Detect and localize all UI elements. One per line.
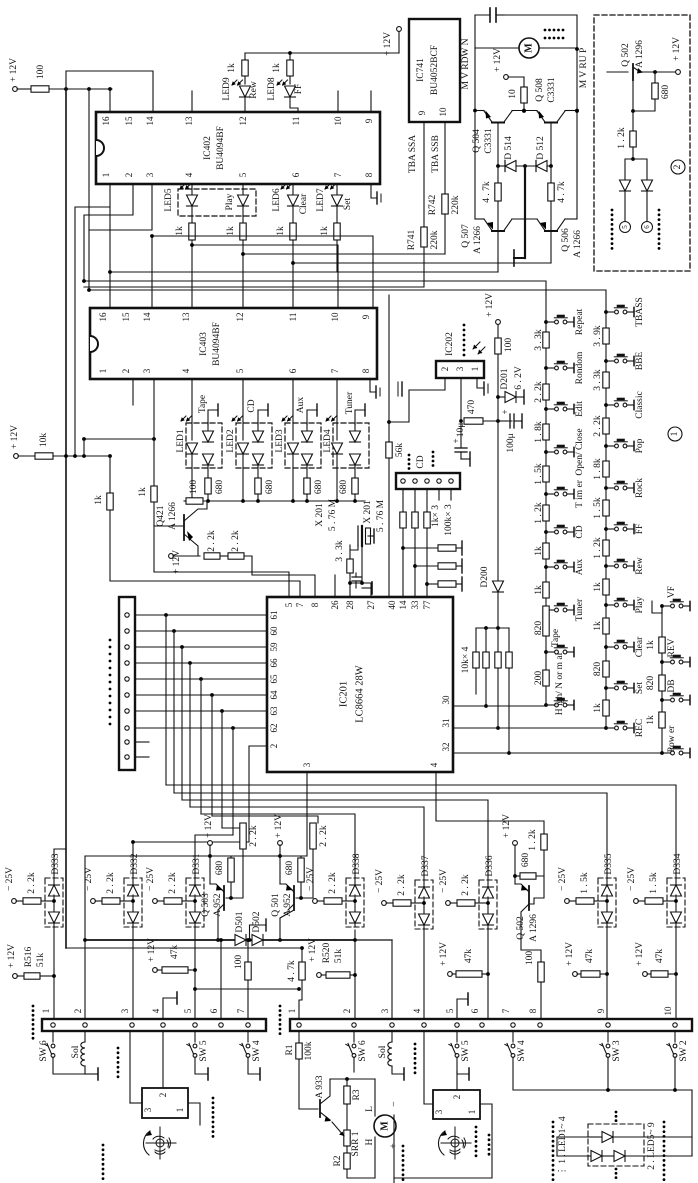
resistor 4.7k (right) xyxy=(550,166,552,183)
svg-text:+ 12V: + 12V xyxy=(7,944,17,968)
CN2 pin5 flag xyxy=(457,999,468,1019)
svg-text:REC: REC xyxy=(635,719,645,737)
driver diode pair D332 xyxy=(124,878,142,927)
pushbutton Repeat xyxy=(544,320,548,324)
svg-text:1 . 2k: 1 . 2k xyxy=(617,127,627,149)
pushbutton Rew xyxy=(604,564,608,568)
terminal +12V with 10k (IC403 supply) xyxy=(14,454,19,459)
circled pin 5 (group 2) xyxy=(620,222,631,233)
switch SW4 (CN1) xyxy=(247,1031,249,1042)
svg-text:12: 12 xyxy=(238,117,248,126)
pushbutton Open/Close xyxy=(544,450,548,454)
fan wire to D336 xyxy=(182,800,488,880)
svg-text:+ 12V: + 12V xyxy=(308,938,318,962)
wire branch to bus x75 xyxy=(75,207,110,456)
terminal -25V for driver at x=355 xyxy=(313,899,318,904)
LED9 Rew indicator xyxy=(244,53,246,84)
pushbutton FF xyxy=(604,527,608,531)
svg-text:1k: 1k xyxy=(227,63,237,73)
svg-text:1k: 1k xyxy=(593,582,603,592)
terminal +12V with 47k (D334) xyxy=(643,972,648,977)
pushbutton Pop xyxy=(604,444,608,448)
IC403 body xyxy=(90,308,377,379)
svg-text:IC402: IC402 xyxy=(203,136,213,160)
svg-text:M V RDW N: M V RDW N xyxy=(461,38,471,89)
svg-text:9: 9 xyxy=(361,314,371,319)
IC201 pin4 wire to Q502 xyxy=(436,772,544,834)
svg-text:680: 680 xyxy=(285,861,295,876)
svg-text:200: 200 xyxy=(534,671,544,686)
svg-text:680: 680 xyxy=(215,480,225,495)
mode box (CN2 mechanism) xyxy=(456,1071,458,1090)
resistor 4.7k (motor speed line) xyxy=(301,948,303,962)
svg-text:+ 12V: + 12V xyxy=(9,58,19,82)
load capacitor near X201 xyxy=(352,576,361,578)
svg-text:66: 66 xyxy=(269,658,279,668)
legend diode top xyxy=(588,1136,602,1138)
svg-text:27: 27 xyxy=(366,600,376,610)
svg-text:Play: Play xyxy=(225,193,235,210)
fan wire to D334 xyxy=(166,785,676,878)
svg-text:D201: D201 xyxy=(500,368,510,389)
svg-text:LED3: LED3 xyxy=(275,429,285,452)
svg-text:65: 65 xyxy=(269,674,279,684)
IC201 pin32 key return rail xyxy=(453,752,662,754)
svg-text:10: 10 xyxy=(333,116,343,126)
pushbutton Rock xyxy=(604,486,608,490)
transistor Q 503 A952 driver xyxy=(208,841,213,846)
key chain C top link xyxy=(652,601,662,613)
svg-text:6: 6 xyxy=(291,172,301,177)
pushbutton Play xyxy=(604,603,608,607)
connector CN1 (7-pin) xyxy=(42,1019,266,1031)
svg-text:47k: 47k xyxy=(585,949,595,964)
wire IC403 pin3 branch xyxy=(84,379,154,439)
fan wire to D332 xyxy=(133,842,249,878)
resistor 56k on IC201 pin40 line xyxy=(388,295,390,442)
resistor 1.2k (Q502 base feed) xyxy=(541,834,547,850)
svg-text:5: 5 xyxy=(284,602,294,607)
driver diode pair D333 xyxy=(45,878,63,927)
svg-text:47k: 47k xyxy=(170,945,180,960)
wire IC403 pin3 with 1k to IC201 pin5 xyxy=(153,439,155,486)
IC402 pin8 ground xyxy=(371,184,377,198)
resistor array 10k x 4 pull network xyxy=(476,627,509,629)
svg-text:12: 12 xyxy=(235,313,245,322)
svg-text:2: 2 xyxy=(673,164,683,169)
svg-text:1k: 1k xyxy=(534,546,544,556)
IC201 pin3 wire to CN1 pin2 xyxy=(85,772,307,1019)
svg-text:8: 8 xyxy=(310,602,320,607)
capacitor near IC403 pin9 xyxy=(397,382,399,396)
svg-text:A 1266: A 1266 xyxy=(573,230,583,258)
svg-text:5: 5 xyxy=(235,368,245,373)
svg-text:Sol: Sol xyxy=(71,1045,81,1058)
svg-text:D 514: D 514 xyxy=(504,136,514,160)
svg-text:LED1: LED1 xyxy=(176,429,186,452)
svg-text:7: 7 xyxy=(501,1008,511,1013)
svg-text:6: 6 xyxy=(470,1008,480,1013)
svg-text:1k: 1k xyxy=(226,226,236,236)
resistor R3 xyxy=(346,1079,348,1086)
svg-text:14: 14 xyxy=(142,312,152,322)
svg-text:+ 12V: + 12V xyxy=(502,814,512,838)
svg-text:Tuner: Tuner xyxy=(575,598,585,621)
resistor 4.7k (left) xyxy=(497,166,499,183)
svg-text:33: 33 xyxy=(410,600,420,610)
svg-text:1k: 1k xyxy=(276,226,286,236)
switch SW5 (CN1) xyxy=(194,1031,196,1042)
svg-text:D200: D200 xyxy=(480,566,490,587)
terminal -25V for driver at x=133 xyxy=(91,899,96,904)
TBASSA wire from IC741 pin9 xyxy=(423,122,425,227)
svg-text:3: 3 xyxy=(302,762,312,767)
switch SW5 (CN2) xyxy=(456,1031,458,1042)
IC402 pin 9 stub xyxy=(370,91,372,112)
svg-text:2 . 2k: 2 . 2k xyxy=(328,872,338,894)
motor drive bottom rail xyxy=(475,218,484,220)
svg-text:SW 6: SW 6 xyxy=(358,1040,368,1061)
wire band y263 (LED6 to Q506 collector) xyxy=(293,262,551,264)
resistor 680 (group 2) xyxy=(653,70,657,74)
svg-text:100k: 100k xyxy=(304,1041,314,1060)
svg-text:Pop: Pop xyxy=(635,438,645,453)
svg-text:1: 1 xyxy=(670,431,680,436)
svg-text:8: 8 xyxy=(361,368,371,373)
svg-text:IC403: IC403 xyxy=(199,332,209,356)
svg-text:3: 3 xyxy=(455,366,465,371)
resistor 1.2k (group 2) xyxy=(632,111,634,131)
svg-text:VF: VF xyxy=(667,586,677,598)
svg-text:Rock: Rock xyxy=(635,478,645,498)
motor drive upper rail xyxy=(475,110,484,112)
pushbutton Clear xyxy=(604,645,608,649)
svg-text:LED5: LED5 xyxy=(164,188,174,211)
svg-text:62: 62 xyxy=(269,724,279,733)
resistor 100 (CN2 pin8) xyxy=(538,962,544,982)
svg-text:Q421: Q421 xyxy=(156,505,166,526)
svg-text:1 . 5k: 1 . 5k xyxy=(580,872,590,894)
key scan connector (5-pin) xyxy=(396,473,460,489)
IC403 pin8 ground and cap xyxy=(370,379,376,392)
circled group number 2 xyxy=(671,160,685,174)
svg-text:−: − xyxy=(389,1101,400,1107)
circled key group number 1 xyxy=(668,427,682,441)
terminal +12V (remote supply) xyxy=(496,320,501,325)
svg-text:10k: 10k xyxy=(39,433,49,448)
terminal -25V for driver at x=607 xyxy=(565,899,570,904)
variable resistor SRR1 with wiper arrow xyxy=(344,1130,350,1146)
wire +12V rail loop to IC402 pin 14 xyxy=(66,71,153,112)
svg-text:8: 8 xyxy=(364,172,374,177)
resistor 1.2k chain A xyxy=(543,505,549,521)
svg-text:9: 9 xyxy=(596,1008,606,1013)
pushbutton High/Normal xyxy=(544,703,548,707)
motor drive frame right rail xyxy=(576,15,578,219)
pushbutton DB xyxy=(660,698,664,702)
display connector pin9 pin10 stubs xyxy=(135,741,149,743)
goalpost mark above D502 xyxy=(250,925,267,940)
svg-text:680: 680 xyxy=(215,861,225,876)
terminal -25V for driver at x=424 xyxy=(382,901,387,906)
svg-text:D338: D338 xyxy=(352,853,362,874)
svg-text:D336: D336 xyxy=(485,855,495,876)
zener D201 6.2V xyxy=(498,396,505,398)
IC403 pin11 wire from band xyxy=(292,263,294,308)
svg-text:Tape: Tape xyxy=(198,395,208,413)
ground flag (motor drive) xyxy=(514,257,525,259)
LED8 FF indicator xyxy=(289,53,291,84)
svg-text:2 . 2k: 2 . 2k xyxy=(106,872,116,894)
svg-text:3 . 3k: 3 . 3k xyxy=(335,540,345,562)
svg-text:− 25V: − 25V xyxy=(627,867,637,891)
svg-text:Q 502: Q 502 xyxy=(621,43,631,67)
pushbutton Tape xyxy=(544,650,548,654)
svg-text:2 . 2k: 2 . 2k xyxy=(319,825,329,847)
terminal -25V for driver at x=54 xyxy=(12,899,17,904)
svg-text:30: 30 xyxy=(441,695,451,705)
svg-text:6 . 2V: 6 . 2V xyxy=(514,366,524,390)
svg-text:Edit: Edit xyxy=(575,401,585,417)
motor drive top rail with capacitor xyxy=(475,14,490,16)
svg-text:2 . 2k: 2 . 2k xyxy=(534,381,544,403)
svg-text:C3331: C3331 xyxy=(547,77,557,103)
svg-text:1 . 5k: 1 . 5k xyxy=(534,463,544,485)
svg-text:2 . 2k: 2 . 2k xyxy=(231,530,241,552)
svg-text:5: 5 xyxy=(621,225,629,229)
svg-text:1k: 1k xyxy=(138,487,148,497)
pushbutton CD xyxy=(544,530,548,534)
svg-text:77: 77 xyxy=(422,600,432,610)
resistor 2.2k (Q421) #2 xyxy=(228,553,244,559)
resistor 820 chain C xyxy=(659,675,665,691)
resistor 820 chain B xyxy=(603,661,609,677)
wire motor right line xyxy=(393,1115,395,1183)
motor drive frame left rail xyxy=(474,15,476,219)
svg-text:+ 12V: + 12V xyxy=(493,48,503,72)
svg-text:T im er: T im er xyxy=(575,479,585,508)
svg-text:BU4052BCF: BU4052BCF xyxy=(430,45,440,95)
svg-text:SW 2: SW 2 xyxy=(679,1040,689,1061)
svg-text:D332: D332 xyxy=(130,853,140,874)
fan wire to Q501 input xyxy=(212,816,318,823)
dotted columns (group 2) xyxy=(611,209,614,212)
resistor 1k under Play LED xyxy=(240,223,246,240)
svg-text:C3331: C3331 xyxy=(484,128,494,154)
svg-text:+ 12V: + 12V xyxy=(172,550,182,574)
resistor 10k xyxy=(35,453,53,459)
power terminal +12V (IC402 supply) xyxy=(13,87,18,92)
svg-text:51k: 51k xyxy=(36,953,46,968)
svg-text:TBA SSA: TBA SSA xyxy=(408,135,418,173)
pushbutton Timer xyxy=(544,492,548,496)
CN1 pin4 flag xyxy=(163,998,177,1019)
svg-text:4 . 7k: 4 . 7k xyxy=(557,181,567,203)
svg-text:3: 3 xyxy=(434,1109,444,1114)
svg-text:100k× 3: 100k× 3 xyxy=(444,504,454,536)
svg-text:R520: R520 xyxy=(322,942,332,963)
svg-text:Pow er: Pow er xyxy=(667,725,677,752)
svg-text:SRR 1: SRR 1 xyxy=(351,1131,361,1156)
svg-text:2 . 2k: 2 . 2k xyxy=(207,530,217,552)
svg-text:Clear: Clear xyxy=(635,636,645,657)
legend dots above below box xyxy=(615,1111,618,1114)
svg-text:Tuner: Tuner xyxy=(345,391,355,414)
resistor 1k chain A (1) xyxy=(543,543,549,559)
svg-text:SW 4: SW 4 xyxy=(517,1040,527,1061)
svg-text:+ 12V: + 12V xyxy=(672,37,682,61)
svg-text:31: 31 xyxy=(441,719,451,728)
key chain C wire xyxy=(661,606,663,753)
svg-text:2 . 2k: 2 . 2k xyxy=(168,872,178,894)
svg-text:+ 12V: + 12V xyxy=(485,293,495,317)
svg-text:+: + xyxy=(451,438,461,443)
wire +12V bus for LED8 LED9 xyxy=(245,52,399,54)
svg-text:680: 680 xyxy=(339,480,349,495)
LED3 Aux indicator group xyxy=(285,423,321,468)
svg-text:LED6: LED6 xyxy=(272,188,282,211)
resistor R1 100k (CN2 pin1) xyxy=(298,1031,300,1043)
dotted separator CN1 xyxy=(117,1047,120,1050)
svg-text:+ 12V: + 12V xyxy=(147,938,157,962)
fan wire to D331 xyxy=(195,835,233,878)
switch SW6 (CN2) xyxy=(353,1031,355,1042)
resistor 470 xyxy=(464,418,483,424)
svg-text:IC741: IC741 xyxy=(416,58,426,82)
svg-text:SW 4: SW 4 xyxy=(252,1040,262,1061)
svg-text:− 25V: − 25V xyxy=(558,867,568,891)
IC202 pin1 ground xyxy=(477,378,484,388)
wire Q501 collector to thick rail xyxy=(280,910,294,940)
svg-text:28: 28 xyxy=(345,600,355,610)
driver diode pair D337 xyxy=(415,880,433,929)
wire vertical bus x67 (from +12V rail down left side) xyxy=(65,89,67,948)
svg-text:1k: 1k xyxy=(593,703,603,713)
resistor 680 (LED1) xyxy=(205,478,211,494)
terminal +12V (Q421 emitter) xyxy=(169,554,174,559)
svg-text:− 25V: − 25V xyxy=(375,869,385,893)
wire band y254 (Play LED to TBASSB) xyxy=(243,253,445,255)
transistor Q502 A1296 (lamp driver) xyxy=(513,841,518,846)
resistor 680 (LED4) xyxy=(352,478,358,494)
svg-text:2: 2 xyxy=(269,744,279,749)
solenoid Sol (CN2) xyxy=(388,1042,392,1066)
svg-text:1k: 1k xyxy=(94,495,104,505)
svg-text:DB: DB xyxy=(667,679,677,692)
svg-text:− 25V: − 25V xyxy=(306,867,316,891)
resistor 2.2k (Q421) #1 xyxy=(204,553,220,559)
resistor 2.2k (Q 503) xyxy=(240,823,246,849)
svg-text:+ 12V: + 12V xyxy=(383,32,393,56)
resistor 3.3k (oscillator) xyxy=(347,559,353,573)
IC402 pin1 wire down to IC403 pin16 xyxy=(109,184,111,308)
resistor 100 (IC402 supply) xyxy=(31,86,49,92)
wire CN2 pin3 column xyxy=(391,1031,393,1042)
svg-text:+: + xyxy=(500,409,510,414)
svg-text:9: 9 xyxy=(364,118,374,123)
svg-text:220k: 220k xyxy=(430,230,440,249)
resistor 2.2k (Q 501) xyxy=(310,823,316,849)
svg-text:1: 1 xyxy=(98,369,108,374)
LED2 CD indicator group xyxy=(236,423,272,468)
svg-text:820: 820 xyxy=(646,676,656,691)
resistor 1k under LED7 xyxy=(334,223,340,240)
svg-text:2 . 2k: 2 . 2k xyxy=(27,872,37,894)
LED1 Tape indicator group xyxy=(186,423,222,468)
capacitor 100u (electrolytic) xyxy=(498,420,507,422)
legend diodes bottom xyxy=(588,1155,591,1157)
svg-text:11: 11 xyxy=(291,117,301,126)
pushbutton REV xyxy=(660,660,664,664)
svg-text:1 . 8k: 1 . 8k xyxy=(593,458,603,480)
svg-text:D 512: D 512 xyxy=(536,136,546,160)
svg-text:10: 10 xyxy=(508,89,518,99)
capacitor 10u (electrolytic) xyxy=(460,421,462,448)
svg-text:M: M xyxy=(380,1121,391,1131)
svg-text:Q 504: Q 504 xyxy=(472,129,482,153)
svg-text:BBE: BBE xyxy=(635,352,645,371)
svg-text:2: 2 xyxy=(124,173,134,178)
svg-text:8: 8 xyxy=(528,1008,538,1013)
wire Q503 collector to thick rail xyxy=(217,910,219,940)
svg-text:A 1266: A 1266 xyxy=(473,226,483,254)
svg-text:D337: D337 xyxy=(421,855,431,876)
svg-text:LC8664 28W: LC8664 28W xyxy=(355,665,366,723)
resistor 1k chain C (1) xyxy=(659,637,665,653)
svg-text:2: 2 xyxy=(342,1009,352,1014)
terminal -25V for driver at x=488 xyxy=(446,901,451,906)
terminal +12V with R520 51k xyxy=(317,973,322,978)
svg-text:4 . 7k: 4 . 7k xyxy=(482,181,492,203)
svg-text:D333: D333 xyxy=(51,853,61,874)
svg-text:47k: 47k xyxy=(655,949,665,964)
IC403 pin12 wire from band xyxy=(242,254,244,308)
svg-text:A 1296: A 1296 xyxy=(529,914,539,942)
IC403 pin2 stub xyxy=(132,379,134,405)
svg-text:5: 5 xyxy=(183,1008,193,1013)
svg-text:7: 7 xyxy=(330,368,340,373)
svg-text:4 . 7k: 4 . 7k xyxy=(287,960,297,982)
svg-text:63: 63 xyxy=(269,706,279,716)
resistor 100 (CN1 pin7) xyxy=(247,940,249,962)
wire band y281 (to key chain A) xyxy=(84,281,546,322)
wire band y236 (to IC403 pin9) xyxy=(88,281,90,290)
svg-text:4: 4 xyxy=(151,1008,161,1013)
solenoid Sol (CN1) xyxy=(84,1031,86,1042)
svg-text:− 25V: − 25V xyxy=(146,867,156,891)
svg-text:⋮ 1 . LED1~ 4: ⋮ 1 . LED1~ 4 xyxy=(558,1116,568,1175)
svg-text:2: 2 xyxy=(158,1093,168,1098)
svg-text:5 . 76 M: 5 . 76 M xyxy=(328,498,338,531)
switch SW3 (CN2) xyxy=(607,1031,609,1042)
svg-text:2: 2 xyxy=(73,1009,83,1014)
svg-text:100: 100 xyxy=(504,338,514,353)
fan wire to Q503 input xyxy=(222,827,243,829)
resistor array 100k x 3 to ground xyxy=(401,546,405,550)
svg-text:1 . 5k: 1 . 5k xyxy=(649,872,659,894)
svg-text:− 25V: − 25V xyxy=(5,867,15,891)
rotary head symbol (CN1) xyxy=(156,1139,164,1147)
LED7 Set diode on IC402 pin7 xyxy=(336,184,338,223)
motor M (volume) xyxy=(475,47,519,49)
svg-text:4: 4 xyxy=(412,1008,422,1013)
wire IC403 pin14 feed xyxy=(151,236,153,308)
terminal +12V (LED supply top-right) xyxy=(398,31,400,53)
IC402 pin 10 stub xyxy=(337,91,339,112)
wire to IC201 pin 27 xyxy=(350,583,371,597)
svg-text:BU4094BF: BU4094BF xyxy=(216,126,226,170)
svg-text:LED9: LED9 xyxy=(222,77,232,100)
